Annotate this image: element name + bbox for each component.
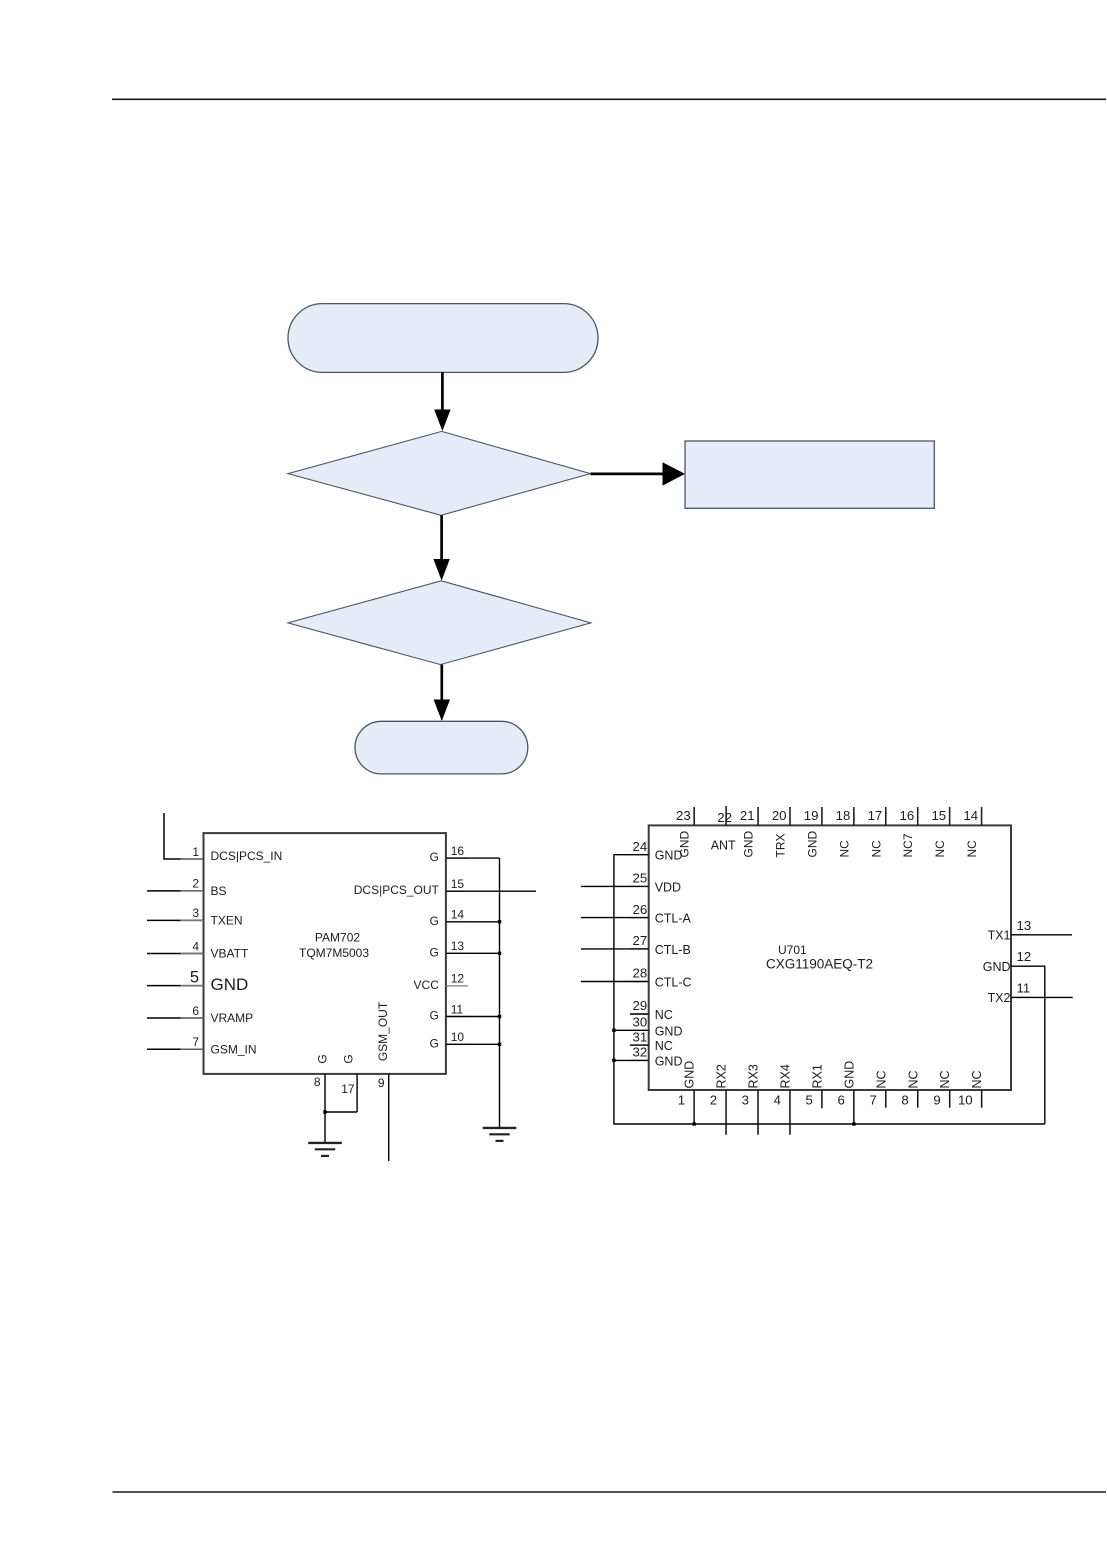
pin 14 G (right): [430, 908, 468, 928]
svg-text:DCS|PCS_OUT: DCS|PCS_OUT: [354, 883, 440, 897]
svg-text:TXEN: TXEN: [211, 914, 243, 928]
pin 17 NC (top): [868, 807, 886, 858]
wire pin12 GND to net: [1011, 966, 1045, 1124]
wire pin 32 to GND net: [614, 1059, 649, 1061]
svg-text:CTL-B: CTL-B: [655, 943, 691, 957]
pin 26 CTL-A (left): [630, 902, 692, 926]
svg-text:4: 4: [774, 1093, 781, 1108]
svg-text:NC: NC: [965, 840, 979, 858]
pin 13 G (right): [430, 939, 468, 959]
wire to pin 6 VRAMP: [147, 1017, 204, 1019]
wire pin13 TX1 output: [1011, 934, 1072, 936]
svg-text:CXG1190AEQ-T2: CXG1190AEQ-T2: [766, 957, 873, 972]
pin 4 VBATT (left): [181, 939, 249, 960]
svg-text:17: 17: [341, 1082, 355, 1096]
svg-text:15: 15: [931, 808, 946, 823]
wire pin13 to G bus: [446, 952, 500, 954]
stub wire pin 29 NC: [630, 1013, 649, 1015]
svg-text:22: 22: [717, 810, 732, 825]
wire pin8-pin17 join: [325, 1111, 357, 1113]
wire pin 30 to GND net: [614, 1029, 649, 1031]
svg-text:8: 8: [901, 1093, 908, 1108]
svg-text:GSM_IN: GSM_IN: [211, 1042, 257, 1056]
svg-text:23: 23: [676, 808, 691, 823]
svg-text:GND: GND: [655, 849, 683, 863]
svg-text:NC: NC: [970, 1070, 984, 1088]
pin 16 G (right): [430, 844, 468, 864]
svg-text:31: 31: [633, 1029, 648, 1044]
flow arrow decision1->decision2: [433, 515, 449, 580]
IC U701 CXG1190AEQ-T2 body: [649, 825, 1011, 1090]
svg-text:NC: NC: [874, 1070, 888, 1088]
svg-text:17: 17: [868, 808, 883, 823]
wire net to pin 1 (L-shaped from above): [164, 813, 204, 859]
svg-text:G: G: [342, 1054, 356, 1063]
svg-text:TRX: TRX: [773, 834, 787, 858]
wire pin15 DCS|PCS_OUT output: [446, 890, 536, 892]
svg-text:6: 6: [838, 1093, 845, 1108]
stub wire pin 31 NC: [630, 1044, 649, 1046]
pin 11 TX2 (right): [988, 980, 1031, 1005]
svg-text:VBATT: VBATT: [211, 947, 249, 961]
pin 15 NC (top): [931, 807, 949, 858]
flow arrow start->decision1: [434, 372, 450, 431]
wire to pin 25: [581, 885, 649, 887]
svg-text:21: 21: [740, 808, 755, 823]
svg-text:20: 20: [772, 808, 787, 823]
pin 12 GND (right): [983, 949, 1031, 974]
junction pin14/bus: [498, 920, 501, 923]
svg-text:16: 16: [900, 808, 915, 823]
pin 12 VCC (right): [414, 972, 468, 992]
pin 22 ANT (top): [711, 806, 736, 852]
svg-text:TX1: TX1: [988, 928, 1011, 942]
svg-text:11: 11: [1017, 980, 1031, 995]
ground (pins 8/17): [308, 1143, 342, 1156]
pin 17 G (bottom): [341, 1054, 357, 1112]
IC PAM702 value labels: [299, 931, 369, 960]
pin 10 G (right): [430, 1030, 468, 1050]
svg-text:5: 5: [190, 968, 199, 986]
pin 1 GND (bottom): [678, 1061, 697, 1124]
svg-text:VRAMP: VRAMP: [211, 1011, 254, 1025]
svg-text:25: 25: [633, 871, 648, 886]
svg-text:6: 6: [192, 1004, 199, 1018]
pin 2 BS (left): [181, 877, 227, 898]
svg-text:GND: GND: [842, 1061, 856, 1089]
pin 9 GSM_OUT (bottom): [376, 1001, 390, 1090]
svg-text:10: 10: [451, 1030, 465, 1044]
svg-text:NC: NC: [869, 840, 883, 858]
svg-text:1: 1: [192, 845, 199, 859]
svg-text:7: 7: [869, 1093, 876, 1108]
svg-text:ANT: ANT: [711, 838, 736, 852]
wire junction to ground: [324, 1112, 326, 1143]
pin 29 NC (left): [630, 998, 673, 1022]
svg-text:GND: GND: [655, 1054, 683, 1068]
svg-text:30: 30: [633, 1015, 648, 1030]
pin 8 NC (bottom): [901, 1070, 920, 1107]
wire to pin 28: [581, 981, 649, 983]
pin 28 CTL-C (left): [630, 966, 692, 990]
pin 6 VRAMP (left): [181, 1004, 254, 1025]
junction pin11/bus: [498, 1015, 501, 1018]
svg-text:13: 13: [1017, 918, 1032, 933]
svg-text:7: 7: [192, 1035, 199, 1049]
svg-text:9: 9: [933, 1093, 940, 1108]
pin 32 GND (left): [630, 1045, 683, 1069]
svg-text:26: 26: [633, 902, 648, 917]
pin 18 NC (top): [836, 807, 854, 858]
svg-text:G: G: [430, 850, 439, 864]
svg-text:16: 16: [451, 844, 465, 858]
svg-text:NC: NC: [655, 1008, 673, 1022]
pin 2 RX2 (bottom): [710, 1064, 729, 1135]
svg-text:GSM_OUT: GSM_OUT: [376, 1001, 390, 1061]
wire pin16 to G bus: [446, 857, 500, 859]
svg-text:NC: NC: [938, 1070, 952, 1088]
svg-text:24: 24: [633, 839, 648, 854]
wire to pin 3 TXEN: [147, 919, 204, 921]
footer rule: [113, 1491, 1107, 1493]
IC U701 reference/value labels: [766, 943, 873, 972]
junction pin10/bus: [498, 1043, 501, 1046]
svg-text:2: 2: [192, 877, 199, 891]
IC U_PA PAM702 TQM7M5003 body: [204, 833, 446, 1074]
svg-text:32: 32: [633, 1045, 648, 1060]
svg-text:VDD: VDD: [655, 880, 681, 894]
ground (G bus): [483, 1128, 517, 1141]
wire to pin 26: [581, 917, 649, 919]
pin 20 TRX (top): [772, 807, 790, 858]
svg-text:GND: GND: [805, 831, 819, 858]
junction pin13/bus: [498, 952, 501, 955]
pin 19 GND (top): [804, 807, 822, 858]
header rule: [112, 98, 1106, 100]
svg-text:NC7: NC7: [901, 833, 915, 857]
svg-text:GND: GND: [742, 831, 756, 858]
flow arrow decision2->end: [434, 665, 450, 721]
wire pin11 to G bus: [446, 1016, 500, 1018]
pin 25 VDD (left): [630, 871, 681, 895]
junction pin1/GND rail: [692, 1122, 695, 1125]
flowchart process box: [685, 441, 934, 508]
pin 23 GND (top): [676, 807, 694, 858]
svg-text:GND: GND: [211, 975, 249, 994]
svg-text:G: G: [430, 914, 439, 928]
pin 21 GND (top): [740, 807, 758, 858]
flowchart terminator: end (stadium): [355, 721, 528, 774]
svg-text:15: 15: [451, 877, 465, 891]
pin 31 NC (left): [630, 1029, 673, 1053]
junction pin8 wire: [323, 1110, 326, 1113]
wire to pin 2 BS: [147, 890, 204, 892]
svg-text:9: 9: [378, 1076, 385, 1090]
svg-text:11: 11: [451, 1002, 464, 1016]
svg-text:3: 3: [742, 1093, 749, 1108]
wire to pin 5 GND: [147, 985, 204, 987]
svg-text:G: G: [316, 1054, 330, 1063]
svg-text:DCS|PCS_IN: DCS|PCS_IN: [211, 849, 283, 863]
flowchart decision 2 (diamond): [288, 581, 591, 665]
pin 3 TXEN (left): [181, 906, 243, 927]
svg-text:4: 4: [192, 939, 199, 953]
svg-text:12: 12: [451, 972, 465, 986]
svg-text:CTL-C: CTL-C: [655, 976, 692, 990]
wire to pin 27: [581, 948, 649, 950]
svg-text:2: 2: [710, 1093, 717, 1108]
svg-text:GND: GND: [683, 1061, 697, 1089]
svg-text:TX2: TX2: [988, 991, 1011, 1005]
svg-text:CTL-A: CTL-A: [655, 912, 692, 926]
junction pin6/GND rail: [852, 1122, 855, 1125]
pin 3 RX3 (bottom): [742, 1064, 761, 1135]
wire pin 9 GSM_OUT down: [388, 1074, 390, 1161]
flowchart terminator: start (stadium): [288, 304, 598, 373]
svg-text:RX3: RX3: [747, 1064, 761, 1088]
svg-text:12: 12: [1017, 949, 1032, 964]
wire to pin 7 GSM_IN: [147, 1048, 204, 1050]
svg-text:NC: NC: [837, 840, 851, 858]
wire pin11 TX2 output: [1011, 996, 1073, 998]
svg-text:PAM702: PAM702: [315, 931, 360, 945]
pin 24 GND (left): [630, 839, 683, 863]
svg-text:14: 14: [451, 908, 465, 922]
pin 5 RX1 (bottom): [806, 1064, 825, 1108]
pin 15 DCS|PCS_OUT (right): [354, 877, 468, 897]
svg-text:RX1: RX1: [810, 1064, 824, 1088]
svg-text:G: G: [430, 945, 439, 959]
pin 8 G (bottom): [314, 1054, 330, 1112]
wire to pin 4 VBATT: [147, 953, 204, 955]
pin 13 TX1 (right): [988, 918, 1032, 943]
pin 6 GND (bottom): [838, 1061, 857, 1124]
svg-text:29: 29: [633, 998, 648, 1013]
svg-text:NC: NC: [655, 1039, 673, 1053]
pin 10 NC (bottom): [958, 1070, 984, 1107]
svg-text:27: 27: [633, 933, 648, 948]
pin 14 NC (top): [963, 807, 981, 858]
pin 7 NC (bottom): [869, 1070, 888, 1107]
flowchart decision 1 (diamond): [288, 431, 590, 515]
G bus vertical wire: [499, 858, 501, 1128]
svg-text:19: 19: [804, 808, 819, 823]
svg-text:TQM7M5003: TQM7M5003: [299, 946, 369, 960]
svg-text:RX4: RX4: [778, 1064, 792, 1088]
svg-text:1: 1: [678, 1093, 685, 1108]
svg-text:VCC: VCC: [414, 978, 440, 992]
pin 4 RX4 (bottom): [774, 1064, 793, 1135]
pin 1 DCS|PCS_IN (left): [181, 845, 283, 863]
svg-text:BS: BS: [211, 884, 227, 898]
svg-text:28: 28: [633, 966, 648, 981]
svg-text:NC: NC: [906, 1070, 920, 1088]
svg-text:8: 8: [314, 1075, 321, 1089]
svg-text:14: 14: [963, 808, 978, 823]
wire pin24 GND net (down left side): [614, 855, 1045, 1124]
flow arrow decision1->process (right): [591, 462, 686, 485]
svg-text:5: 5: [806, 1093, 813, 1108]
pin 16 NC7 (top): [900, 807, 918, 858]
pin 9 NC (bottom): [933, 1070, 952, 1107]
pin 7 GSM_IN (left): [181, 1035, 257, 1056]
svg-text:GND: GND: [983, 960, 1011, 974]
svg-text:10: 10: [958, 1093, 973, 1108]
pin 5 GND (left): [181, 968, 249, 993]
svg-text:RX2: RX2: [715, 1064, 729, 1088]
svg-text:G: G: [430, 1009, 439, 1023]
wire pin10 to G bus: [446, 1043, 500, 1045]
wire pin14 to G bus: [446, 921, 500, 923]
svg-text:18: 18: [836, 808, 851, 823]
svg-text:U701: U701: [778, 943, 807, 957]
svg-text:3: 3: [192, 906, 199, 920]
svg-text:13: 13: [451, 939, 465, 953]
junction pin 30: [612, 1029, 615, 1032]
junction pin 32: [612, 1059, 615, 1062]
pin 30 GND (left): [630, 1015, 683, 1039]
pin 27 CTL-B (left): [630, 933, 691, 957]
pin 11 G (right): [430, 1002, 468, 1022]
svg-text:G: G: [430, 1036, 439, 1050]
svg-text:GND: GND: [655, 1024, 683, 1038]
svg-text:NC: NC: [933, 840, 947, 858]
